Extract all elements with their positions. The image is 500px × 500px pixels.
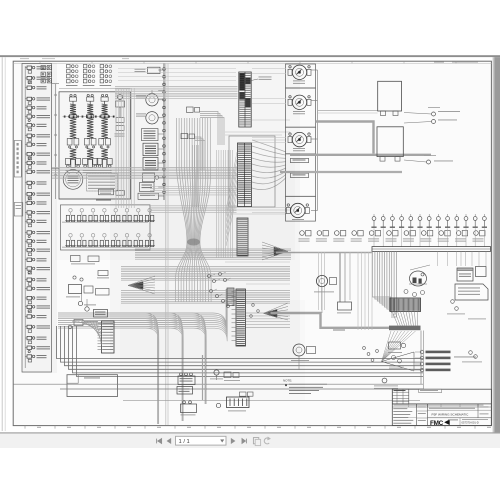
engine harness bottom label: [96, 200, 111, 201]
harness bundle top horizontal: [118, 68, 236, 70]
fuel gauge: [292, 65, 306, 79]
viewer top divider line: [0, 55, 500, 57]
fan left of J2: [226, 152, 237, 210]
relay pair upper with bundle: [187, 107, 194, 112]
horn relay K1: [146, 94, 158, 106]
wires relay column to bus: [158, 69, 164, 71]
relay oval cluster: [410, 271, 427, 286]
lower relay cluster: [140, 183, 155, 192]
terminal annotation 3: [427, 160, 431, 164]
relay pair lower with bundle: [181, 134, 188, 139]
first page button: [157, 439, 162, 444]
engine box feed bus: [55, 84, 57, 199]
wire from panel to engine box: [52, 83, 60, 85]
temp gauge: [292, 95, 306, 109]
connector J4 (floor harness): [236, 289, 246, 346]
bundle into instrument connector: [192, 145, 194, 207]
scan wash overlay: [13, 61, 491, 425]
aux connector small: [227, 288, 234, 306]
chassis box: [67, 375, 118, 397]
stray wires over connector zone: [225, 131, 290, 133]
spare lamp terminals: [363, 347, 366, 350]
alternator wires: [339, 252, 341, 302]
harness band mid2: [150, 186, 237, 188]
cold aid solenoid: [392, 356, 396, 360]
key switch: [214, 370, 219, 375]
gauge right bus: [311, 69, 318, 71]
ammeter gauge: [291, 203, 305, 217]
vertical trunk secondary: [216, 150, 218, 258]
floor connector with fan: [102, 321, 115, 353]
scan page left edge: [1, 57, 3, 431]
revision table: [392, 389, 409, 404]
toolbar divider: [0, 432, 500, 433]
alternator cluster: [224, 372, 231, 378]
aux box right: [476, 267, 487, 277]
ground rail long: [14, 383, 424, 385]
fit page icon: [253, 438, 258, 444]
spare terminal cluster: [208, 275, 211, 278]
gauge feed crossings: [252, 68, 286, 70]
gauge cluster boxes: [286, 64, 316, 88]
resistor with terminal: [143, 173, 155, 182]
part number: [459, 418, 461, 426]
relay column resistor bank: [142, 129, 159, 141]
harness label box left margin: [14, 141, 21, 178]
harness wedge lower: [264, 309, 278, 317]
stray terminals center: [252, 304, 255, 307]
bundle rows lower: [121, 290, 290, 292]
bunched wires band: [389, 326, 421, 331]
bundle rows below connectors: [135, 248, 291, 250]
indicator lamp grid: [67, 65, 71, 68]
distributor assembly: [117, 94, 122, 99]
sender row A: [372, 217, 376, 221]
starter solenoid: [181, 404, 197, 413]
fan below block: [392, 312, 398, 326]
rear lamp list: [420, 350, 424, 354]
cable mid: [280, 171, 402, 173]
connector J2: [238, 143, 252, 207]
scan page right shadow band: [494, 57, 500, 434]
sender bus bar: [372, 247, 491, 252]
connector J3: [237, 218, 248, 256]
wires gauges to starter box: [318, 110, 378, 112]
start relay K2: [146, 112, 158, 124]
rail risers right: [420, 331, 422, 385]
ignition coil x=73.0: [69, 97, 76, 101]
lever feed verticals: [437, 252, 439, 267]
spark terminal dot row: [64, 116, 66, 118]
ballast resistor: [382, 378, 387, 383]
tolerance block: [416, 404, 418, 426]
sender row B switches: [300, 231, 305, 236]
battery cable upper: [316, 122, 374, 154]
terminal annotation 1: [432, 112, 436, 116]
terminal annotation 2: [432, 120, 436, 124]
frame ground terminals: [451, 300, 455, 304]
horn feed verticals: [318, 252, 320, 310]
toolbar background: [0, 434, 500, 448]
FMC parts logo circle: [63, 170, 83, 190]
title block frame: [392, 389, 491, 425]
margin smudge marks: [20, 57, 29, 60]
company name row: [428, 409, 479, 411]
comb harness verticals: [373, 251, 392, 297]
vertical trunk center braid: [176, 118, 187, 302]
solenoid relay 2: [177, 387, 193, 395]
engine connector block: [390, 298, 421, 312]
header cells: [392, 406, 491, 408]
connector J1 (dash harness): [239, 72, 251, 127]
vertical feed wires to battery: [202, 355, 204, 400]
hour meter: [293, 344, 305, 356]
sender drops to bus: [373, 228, 375, 246]
battery box right: [377, 127, 403, 157]
harness band above switch panel: [150, 205, 237, 207]
flasher unit: [389, 342, 401, 349]
switch row 2: [66, 240, 69, 246]
harness band mid horizontal: [52, 167, 237, 169]
J1 label arrow: [251, 79, 258, 81]
ground bus wire long: [276, 252, 372, 254]
accelerator module cluster: [73, 276, 76, 279]
battery cable to terminal: [290, 154, 431, 156]
battery: [227, 397, 250, 408]
fuse grid F1-F6: [41, 66, 45, 70]
engine ground text: [468, 318, 486, 321]
fuse-relay panel components: [27, 66, 32, 69]
regulator polygon: [455, 284, 488, 300]
cab bus line: [163, 64, 165, 201]
rotate icon: [264, 438, 269, 444]
parts note text: [87, 174, 118, 192]
page number box: [176, 436, 227, 445]
harness wedge left: [128, 282, 143, 290]
starter motor box: [378, 81, 402, 111]
ignition coil x=104.6: [101, 97, 108, 101]
relay column top resistor: [148, 67, 161, 73]
brake light terminals: [469, 351, 473, 355]
terminal block small: [99, 189, 114, 195]
harness bundle vertical left of connectors: [115, 89, 117, 209]
relay column bottom block: [138, 193, 158, 199]
next page button: [231, 439, 235, 444]
horn: [316, 275, 327, 286]
last page button: [242, 439, 246, 444]
solenoid relay 1: [178, 376, 195, 385]
switch row 1: [66, 215, 69, 221]
gauge feed fan: [252, 140, 286, 152]
size scale cells: [477, 404, 479, 418]
gauge resistor 2: [291, 173, 309, 177]
connector stub box left margin: [14, 203, 22, 217]
previous page button: [167, 439, 171, 444]
oil pressure gauge: [292, 132, 306, 146]
nested ground bus loops: [57, 326, 424, 359]
schematic border frame: [13, 61, 491, 425]
signature cells: [427, 404, 429, 426]
bus pair vertical long: [165, 64, 167, 426]
lever switch box: [457, 268, 473, 281]
switch panel outline: [61, 205, 151, 250]
bundle rows right of J4: [246, 312, 290, 314]
frame zone ticks top: [39, 61, 41, 63]
harness fan to lamps: [382, 331, 392, 362]
fuse holder block: [143, 158, 158, 171]
ground cable lower: [271, 313, 390, 328]
frame zone ticks bottom: [24, 426, 26, 429]
engine compartment box: [59, 92, 131, 199]
instrument panel box: [229, 136, 275, 207]
fuse link: [240, 392, 247, 396]
sweeping harness curves to bottom: [58, 313, 158, 424]
ignition coil x=90.2: [87, 97, 94, 101]
horn ground wire: [321, 287, 323, 313]
lamp feed verticals: [357, 252, 359, 330]
flasher module: [143, 143, 158, 156]
frame top right tick text: [434, 61, 444, 64]
bundle rows mid-low: [121, 266, 290, 268]
fuse-relay panel outline: [22, 64, 52, 373]
drawing number strip top: [392, 403, 491, 405]
gauge resistor 1: [291, 158, 309, 162]
harness wedge right-up: [274, 247, 288, 255]
svg-text:1 / 1: 1 / 1: [179, 439, 190, 445]
